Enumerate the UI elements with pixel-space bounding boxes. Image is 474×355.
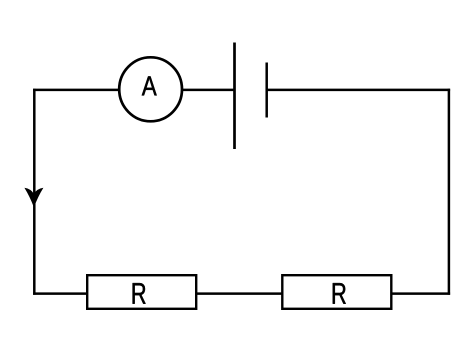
battery cell short plate (-) (265, 63, 268, 118)
wire top-left segment (33, 89, 120, 92)
wire bottom segment left (33, 292, 87, 295)
wire ammeter-to-battery segment (181, 89, 235, 92)
resistor R (right) (282, 275, 391, 309)
wire bottom segment right (392, 292, 451, 295)
wire battery-to-right segment (267, 89, 450, 92)
wire right side (448, 89, 451, 295)
battery cell long plate (+) (233, 43, 236, 150)
current direction arrow (24, 188, 43, 208)
wire bottom segment middle (197, 292, 284, 295)
wire left side (33, 89, 36, 295)
ammeter A1 (119, 57, 182, 121)
resistor R (left) (87, 275, 196, 309)
